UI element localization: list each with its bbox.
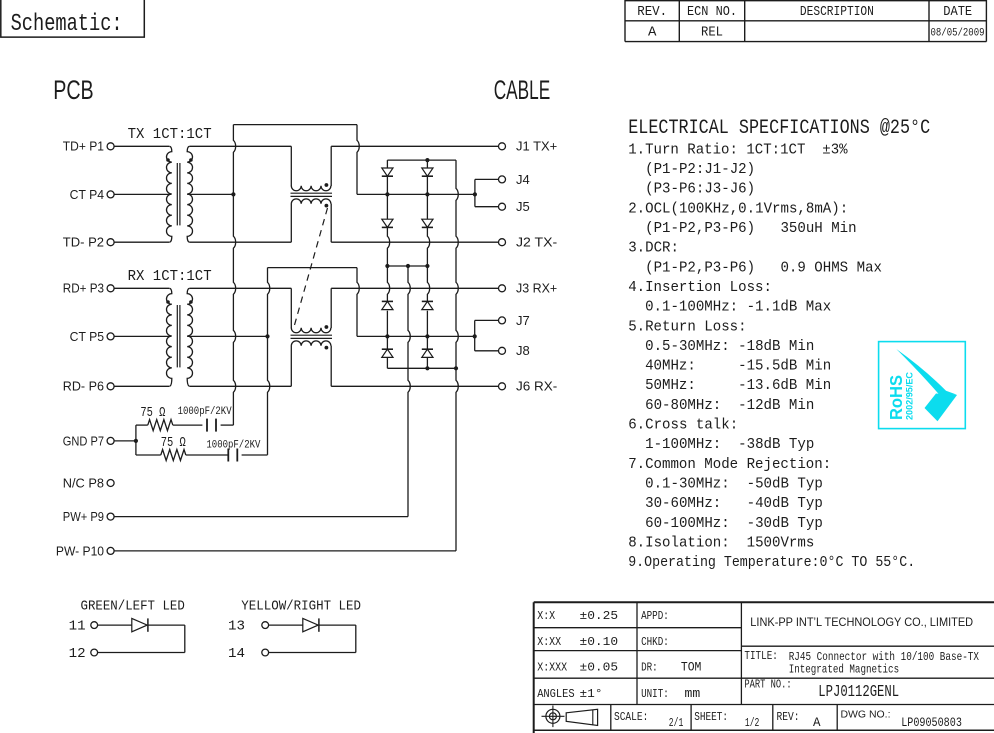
transformer T1 secondary winding [187, 146, 192, 242]
svg-text:60-80MHz: -12dB Min: 60-80MHz: -12dB Min [628, 396, 814, 414]
wire TX bypass down leg [357, 125, 359, 195]
wire T1 secondary center tap to node A [187, 193, 233, 195]
svg-text:75 Ω: 75 Ω [161, 436, 186, 451]
svg-text:J4: J4 [516, 172, 530, 187]
pin 11 [91, 622, 98, 629]
junction TX mid right diode [425, 192, 429, 196]
wire T2 secondary top to choke L2 [190, 287, 291, 289]
svg-text:1-100MHz: -38dB Typ: 1-100MHz: -38dB Typ [628, 435, 814, 453]
svg-text:4.Insertion Loss:: 4.Insertion Loss: [628, 278, 772, 296]
wire pin 13 to LED2 [269, 624, 303, 626]
wire RC branch 2 [136, 454, 161, 456]
svg-text:±0.05: ±0.05 [580, 660, 619, 674]
svg-text:CT P4: CT P4 [70, 187, 104, 202]
svg-text:TOM: TOM [681, 660, 702, 674]
pin J1 [499, 143, 506, 150]
wire node A vertical (TX center-tap rail) [233, 125, 235, 426]
svg-text:TD+ P1: TD+ P1 [63, 139, 104, 154]
junction RX mid left diode [385, 334, 389, 338]
junction tie row middle (PW+) [406, 264, 410, 268]
svg-text:APPD:: APPD: [641, 609, 669, 623]
diode D5 [382, 300, 393, 302]
wire P3 to T2 [114, 287, 169, 289]
svg-text:TD- P2: TD- P2 [63, 235, 104, 250]
svg-text:DR:: DR: [641, 660, 658, 674]
svg-text:±1°: ±1° [580, 687, 603, 701]
wire PW- vertical [456, 160, 458, 551]
svg-text:J7: J7 [516, 313, 530, 328]
wire TX top bypass rail [233, 124, 357, 126]
choke L2 core [291, 334, 333, 336]
diode D7 [422, 300, 433, 302]
pin P1 [107, 143, 114, 150]
pin 13 [262, 622, 269, 629]
svg-text:DATE: DATE [943, 4, 972, 20]
pin P10 [107, 547, 114, 554]
wire RC branch 1 [136, 424, 148, 426]
choke L1 left leg [290, 146, 292, 186]
svg-text:ANGLES: ANGLES [537, 687, 575, 701]
junction TX mid left diode [385, 192, 389, 196]
svg-text:PW+ P9: PW+ P9 [63, 509, 104, 524]
wire RX mid row to J7/J8 node [357, 335, 475, 337]
svg-text:X:XXX: X:XXX [537, 660, 567, 674]
wire J7/J8 bracket [474, 320, 476, 350]
svg-text:REV.: REV. [637, 4, 667, 20]
choke L1 core [291, 192, 333, 194]
svg-text:08/05/2009: 08/05/2009 [931, 28, 985, 40]
wire choke L2 to J6 [331, 385, 498, 387]
svg-text:(P1-P2,P3-P6) 0.9 OHMS Max: (P1-P2,P3-P6) 0.9 OHMS Max [628, 258, 882, 276]
resistor R1 75 Ohm [148, 420, 173, 431]
junction J7/J8 bracket node [473, 334, 477, 338]
junction tie row left [385, 264, 389, 268]
svg-text:1000pF/2KV: 1000pF/2KV [206, 440, 260, 452]
svg-text:LINK-PP INT’L TECHNOLOGY CO.,: LINK-PP INT’L TECHNOLOGY CO., LIMITED [750, 615, 973, 629]
diode D1 [382, 168, 393, 176]
junction node B [265, 334, 269, 338]
svg-text:X:X: X:X [537, 609, 555, 623]
svg-text:±0.10: ±0.10 [580, 635, 619, 649]
svg-text:0.1-30MHz: -50dB Typ: 0.1-30MHz: -50dB Typ [628, 474, 823, 492]
wire T2 secondary center tap to node B [187, 335, 267, 337]
svg-text:PART NO.:: PART NO.: [744, 678, 791, 692]
svg-text:PW- P10: PW- P10 [56, 543, 104, 558]
pin P6 [107, 383, 114, 390]
junction node A [231, 192, 235, 196]
svg-text:2/1: 2/1 [669, 716, 684, 730]
title block table [534, 602, 994, 733]
svg-text:CABLE: CABLE [494, 75, 551, 105]
LED2 yellow diode [303, 618, 318, 631]
pin P9 [107, 513, 114, 520]
pin J6 [499, 383, 506, 390]
svg-text:1000pF/2KV: 1000pF/2KV [178, 406, 232, 418]
RoHS logo [879, 342, 966, 429]
svg-text:SCALE:: SCALE: [614, 710, 648, 724]
junction GND split node [134, 439, 138, 443]
wire pin 11 to LED1 [98, 624, 132, 626]
choke L1 right leg [330, 146, 332, 186]
svg-text:(P1-P2:J1-J2): (P1-P2:J1-J2) [628, 160, 755, 178]
pin J4 [499, 176, 506, 183]
pin J5 [499, 203, 506, 210]
pin 12 [91, 649, 98, 656]
title box 'Schematic:' [1, 0, 145, 37]
pin P3 [107, 285, 114, 292]
diode D3 [422, 168, 433, 176]
LED1 green diode [132, 618, 147, 631]
svg-text:J8: J8 [516, 343, 530, 358]
diode D8 [422, 348, 433, 350]
wire choke L1 to J2 [331, 241, 498, 243]
transformer T2 core [176, 305, 178, 367]
wire PW+ P9 [114, 516, 408, 518]
svg-text:A: A [648, 25, 657, 41]
transformer T1 core [176, 163, 178, 225]
wire choke L1 to J1 [331, 145, 498, 147]
svg-text:RX 1CT:1CT: RX 1CT:1CT [128, 269, 212, 285]
svg-text:6.Cross talk:: 6.Cross talk: [628, 416, 738, 434]
wire PW+ vertical [408, 266, 410, 517]
resistor R2 75 Ohm [161, 450, 186, 461]
choke L1 top winding [291, 186, 331, 191]
pin P4 [107, 191, 114, 198]
svg-text:0.5-30MHz: -18dB Min: 0.5-30MHz: -18dB Min [628, 337, 814, 355]
svg-text:SHEET:: SHEET: [694, 710, 728, 724]
svg-text:75 Ω: 75 Ω [140, 406, 165, 421]
pin P2 [107, 239, 114, 246]
wire TX mid row to J4/J5 node [357, 193, 475, 195]
transformer T2 secondary winding [187, 288, 192, 386]
wire RX top bypass rail [268, 267, 358, 269]
svg-text:0.1-100MHz: -1.1dB Max: 0.1-100MHz: -1.1dB Max [628, 298, 831, 316]
svg-text:J2 TX-: J2 TX- [516, 235, 557, 250]
svg-text:(P3-P6:J3-J6): (P3-P6:J3-J6) [628, 180, 755, 198]
diode D4 [422, 219, 433, 227]
wire pin 12 [98, 652, 185, 654]
svg-text:2.OCL(100KHz,0.1Vrms,8mA):: 2.OCL(100KHz,0.1Vrms,8mA): [628, 199, 848, 217]
svg-text:CHKD:: CHKD: [641, 635, 669, 649]
svg-text:1/2: 1/2 [745, 716, 760, 730]
svg-text:30-60MHz: -40dB Typ: 30-60MHz: -40dB Typ [628, 494, 823, 512]
svg-text:2002/95/EC: 2002/95/EC [905, 372, 915, 420]
svg-text:mm: mm [685, 687, 701, 701]
wire choke L2 to J3 [331, 287, 498, 289]
svg-text:11: 11 [69, 619, 86, 635]
svg-text:ELECTRICAL SPECFICATIONS @25°C: ELECTRICAL SPECFICATIONS @25°C [628, 117, 930, 140]
choke L2 bottom winding [291, 341, 331, 346]
svg-text:±0.25: ±0.25 [580, 609, 619, 623]
svg-text:PCB: PCB [53, 75, 93, 105]
svg-text:RD- P6: RD- P6 [63, 379, 104, 394]
choke L1 polarity dots [325, 183, 329, 187]
junction tie row right [425, 264, 429, 268]
transformer T1 primary winding [167, 146, 172, 242]
diode D6 [382, 348, 393, 350]
svg-text:9.Operating Temperature:0°C TO: 9.Operating Temperature:0°C TO 55°C. [628, 553, 915, 571]
pin J7 [499, 317, 506, 324]
svg-text:YELLOW/RIGHT LED: YELLOW/RIGHT LED [241, 598, 361, 614]
wire P4 to T1 center tap [114, 193, 171, 195]
svg-text:14: 14 [228, 646, 245, 662]
revision table [625, 0, 986, 42]
wire P1 to T1 [114, 145, 169, 147]
wire T1 secondary top to choke L1 [190, 145, 291, 147]
svg-text:REV:: REV: [777, 710, 800, 724]
svg-text:7.Common Mode Rejection:: 7.Common Mode Rejection: [628, 455, 831, 473]
svg-text:1.Turn Ratio: 1CT:1CT ±3%: 1.Turn Ratio: 1CT:1CT ±3% [628, 140, 848, 158]
svg-text:J3 RX+: J3 RX+ [516, 281, 557, 296]
diode D2 [382, 219, 393, 227]
choke L2 right leg [330, 288, 332, 328]
choke L2 top winding [291, 328, 331, 333]
svg-text:CT P5: CT P5 [70, 329, 104, 344]
pin J2 [499, 239, 506, 246]
svg-text:3.DCR:: 3.DCR: [628, 239, 679, 257]
svg-text:5.Return Loss:: 5.Return Loss: [628, 317, 746, 335]
svg-text:13: 13 [228, 619, 245, 635]
wire P5 to T2 center tap [114, 335, 171, 337]
wire T1 secondary bottom to choke L1 [190, 241, 291, 243]
diode column right vertical [426, 160, 428, 168]
svg-text:8.Isolation: 1500Vrms: 8.Isolation: 1500Vrms [628, 533, 814, 551]
projection symbol [542, 706, 598, 728]
svg-text:TX 1CT:1CT: TX 1CT:1CT [128, 127, 212, 143]
svg-text:60-100MHz: -30dB Typ: 60-100MHz: -30dB Typ [628, 514, 823, 532]
transformer T2 polarity dots [166, 300, 170, 304]
pin P7 [107, 437, 114, 444]
junction RX mid right diode [425, 334, 429, 338]
svg-text:GREEN/LEFT LED: GREEN/LEFT LED [81, 598, 185, 614]
svg-text:DWG NO.:: DWG NO.: [841, 710, 891, 721]
pin P5 [107, 333, 114, 340]
wire P6 to T2 [114, 385, 169, 387]
pin 14 [262, 649, 269, 656]
svg-text:RoHS: RoHS [886, 375, 906, 420]
wire pin 14 [269, 652, 356, 654]
wire LED1 to corner [148, 624, 185, 626]
wire RX bypass down leg [357, 268, 359, 337]
wire diode bridge top rail [387, 159, 456, 161]
wire GND riser [135, 425, 137, 455]
svg-text:N/C P8: N/C P8 [63, 475, 104, 490]
junction bottom rail PW- vertical [454, 366, 458, 370]
pin J8 [499, 347, 506, 354]
junction J4/J5 bracket node [473, 192, 477, 196]
svg-text:GND P7: GND P7 [63, 433, 104, 448]
svg-text:LPJ0112GENL: LPJ0112GENL [818, 683, 899, 702]
svg-text:DESCRIPTION: DESCRIPTION [800, 4, 874, 20]
svg-text:Integrated Magnetics: Integrated Magnetics [789, 663, 899, 677]
wire GND P7 [114, 440, 136, 442]
svg-text:A: A [813, 716, 821, 730]
wire node B vertical (RX center-tap rail) [268, 268, 270, 455]
wire diode tie row [387, 265, 427, 267]
capacitor C1 1000pF/2KV [206, 419, 208, 432]
svg-text:J1 TX+: J1 TX+ [516, 139, 557, 154]
svg-text:50MHz: -13.6dB Min: 50MHz: -13.6dB Min [628, 376, 831, 394]
svg-text:40MHz: -15.5dB Min: 40MHz: -15.5dB Min [628, 357, 831, 375]
svg-text:TITLE:: TITLE: [744, 649, 778, 663]
coupling dashed line between L1 and L2 [295, 208, 328, 325]
wire PW- P10 [114, 550, 456, 552]
svg-text:UNIT:: UNIT: [641, 687, 669, 701]
svg-text:X:XX: X:XX [537, 635, 561, 649]
pin J3 [499, 285, 506, 292]
svg-text:REL: REL [701, 25, 723, 41]
wire T2 secondary bottom to choke L2 [190, 385, 291, 387]
pin P8 [107, 480, 114, 487]
junction bottom rail right diode column [425, 366, 429, 370]
svg-text:(P1-P2,P3-P6) 350uH Min: (P1-P2,P3-P6) 350uH Min [628, 219, 856, 237]
svg-text:J6 RX-: J6 RX- [516, 379, 557, 394]
electrical specifications text block [628, 117, 930, 571]
svg-text:RD+ P3: RD+ P3 [63, 281, 104, 296]
wire J4/J5 bracket [474, 179, 476, 206]
choke L2 left leg [290, 288, 292, 328]
svg-text:12: 12 [69, 646, 86, 662]
junction top rail right diode column [425, 158, 429, 162]
transformer T2 primary winding [167, 288, 172, 386]
svg-text:ECN NO.: ECN NO. [687, 4, 737, 20]
wire RX bottom rail [387, 367, 456, 369]
choke L2 polarity dots [325, 325, 329, 329]
transformer T1 polarity dots [166, 158, 170, 162]
svg-text:LP09050803: LP09050803 [901, 716, 962, 730]
svg-text:J5: J5 [516, 199, 530, 214]
wire LED2 to corner [319, 624, 356, 626]
capacitor C2 1000pF/2KV [227, 449, 229, 462]
diode column left vertical [386, 160, 388, 168]
choke L1 bottom winding [291, 199, 331, 204]
wire P2 to T1 [114, 241, 169, 243]
svg-text:Schematic:: Schematic: [11, 11, 123, 38]
